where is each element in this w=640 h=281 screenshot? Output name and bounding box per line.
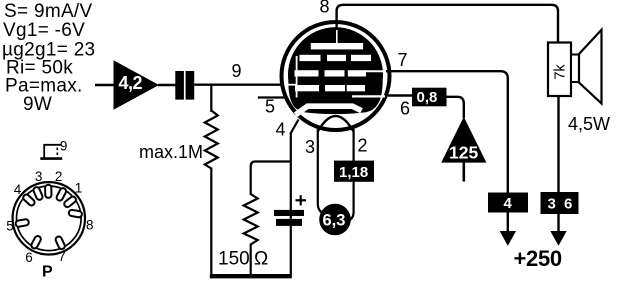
label box 1,18 <box>334 161 374 182</box>
svg-text:4: 4 <box>276 120 286 140</box>
wire capacitor to grid pin 9 <box>194 83 284 85</box>
tube grid row 2 <box>295 70 319 76</box>
tube V1 envelope ring <box>282 22 390 130</box>
wire pin 3 heater <box>318 129 325 214</box>
capacitor C2 electrolytic plus sign <box>296 199 307 201</box>
transformer 7k primary <box>548 43 571 97</box>
svg-text:8: 8 <box>320 0 330 17</box>
wire cathode vertical (pin 4 to rail) <box>290 133 292 276</box>
tube anode plate bar <box>311 43 363 49</box>
socket key symbol <box>44 144 61 146</box>
wire pin 6 <box>388 94 412 96</box>
svg-text:6,3: 6,3 <box>323 212 346 230</box>
svg-text:Ω: Ω <box>254 249 268 270</box>
wire box 0,8 to triangle <box>447 97 464 118</box>
wire cathode junction to resistor R2 <box>251 162 291 196</box>
svg-text:7k: 7k <box>552 64 568 80</box>
svg-text:150: 150 <box>218 249 250 270</box>
socket P inner circle <box>17 186 82 251</box>
svg-text:6: 6 <box>400 99 410 119</box>
wire input stub <box>95 84 114 86</box>
svg-text:4,2: 4,2 <box>119 73 143 93</box>
wire pin 2 heater <box>349 129 354 221</box>
tube heater filament arc <box>318 116 354 132</box>
socket pin ovals <box>15 185 82 250</box>
svg-text:3: 3 <box>35 169 43 184</box>
tube grid row 1 <box>300 55 321 61</box>
arrow supply right <box>550 231 566 246</box>
svg-text:4: 4 <box>14 182 22 197</box>
svg-text:S= 9mA/V: S= 9mA/V <box>4 1 92 22</box>
tube cathode <box>296 106 362 115</box>
svg-text:3: 3 <box>305 137 315 157</box>
tube grid row 3 <box>295 85 319 91</box>
svg-text:Vg1= -6V: Vg1= -6V <box>3 20 85 41</box>
tube g2 internal lead to pin 7 <box>364 70 388 72</box>
triangle label 125 <box>441 117 486 163</box>
arrow supply left <box>500 231 516 246</box>
spec text block <box>2 1 95 115</box>
label box 4 <box>488 193 528 213</box>
socket pin labels <box>6 139 93 266</box>
svg-text:7: 7 <box>398 50 408 70</box>
label box 0,8 <box>412 88 447 107</box>
svg-text:4,5W: 4,5W <box>568 114 610 134</box>
svg-text:2: 2 <box>358 136 368 156</box>
input amplifier triangle 4,2 <box>114 60 160 109</box>
svg-text:8: 8 <box>86 218 94 233</box>
svg-text:9: 9 <box>60 139 68 154</box>
resistor R2 150 ohm <box>244 194 258 245</box>
wire pin 7 screen to supply <box>386 71 508 193</box>
svg-text:1,18: 1,18 <box>339 164 368 181</box>
capacitor C1 coupling <box>175 71 184 100</box>
label circle 6,3 heater voltage <box>319 204 351 236</box>
ground rail bottom <box>210 274 292 278</box>
svg-text:P: P <box>42 264 53 281</box>
socket P outer circle <box>13 182 85 254</box>
wire pin 4 diagonal <box>290 120 298 135</box>
svg-text:9: 9 <box>232 61 242 81</box>
wire below box 4 <box>507 213 509 233</box>
svg-text:5: 5 <box>6 219 14 234</box>
wire below box 36 <box>557 214 559 232</box>
svg-text:9W: 9W <box>23 94 52 115</box>
svg-text:7: 7 <box>58 249 66 264</box>
tube internal lead to pin 6 <box>352 95 385 97</box>
svg-text:5: 5 <box>265 97 275 117</box>
svg-text:6: 6 <box>25 250 33 265</box>
capacitor C2 plates <box>274 210 304 216</box>
stub below triangle 125 <box>462 163 465 182</box>
label box 36 <box>541 192 579 214</box>
wire transformer bottom to box 36 <box>557 96 559 193</box>
svg-text:2: 2 <box>55 169 63 184</box>
tube g1 internal lead <box>296 56 298 98</box>
svg-text:125: 125 <box>449 143 478 163</box>
wire from amp to capacitor <box>158 84 176 86</box>
speaker driver <box>571 55 579 83</box>
svg-text:max.1M: max.1M <box>139 142 203 162</box>
svg-text:1: 1 <box>75 180 83 195</box>
tube anode lead white <box>336 27 338 44</box>
tube V1 electrode blob <box>288 27 383 114</box>
wire junction to grid resistor <box>210 85 212 112</box>
svg-text:0,8: 0,8 <box>417 89 438 106</box>
wire pin 8 anode to top rail to transformer <box>337 5 558 43</box>
wire pin 5 stub <box>258 96 287 98</box>
svg-text:4: 4 <box>504 195 513 212</box>
resistor R1 max.1M <box>205 111 218 169</box>
svg-text:3 6: 3 6 <box>548 196 575 213</box>
svg-text:+250: +250 <box>514 246 562 271</box>
speaker cone <box>579 30 602 104</box>
